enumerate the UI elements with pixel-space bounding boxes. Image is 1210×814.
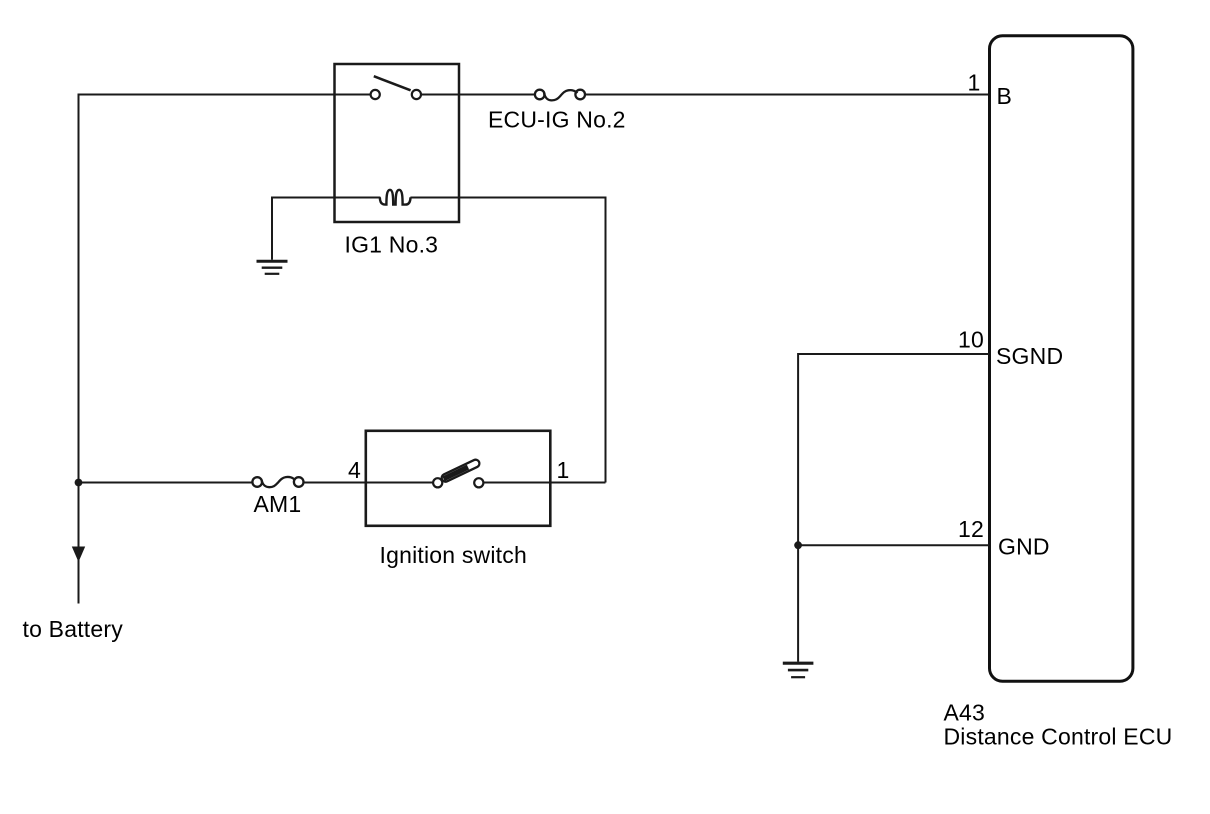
ignition switch box — [366, 431, 551, 526]
wire: fuse ECU-IG No.2 to ECU pin B — [585, 94, 990, 96]
wire: relay coil right lead down to ignition switch pin 1 — [410, 198, 605, 483]
svg-text:to Battery: to Battery — [23, 616, 124, 642]
svg-text:12: 12 — [958, 516, 984, 542]
svg-text:GND: GND — [998, 534, 1050, 560]
ground: ECU ground symbol — [783, 663, 814, 677]
wire: relay coil left lead — [272, 198, 380, 260]
ground: relay coil ground symbol — [257, 261, 288, 274]
wire: SGND from ground bus to ECU pin 10 — [798, 354, 989, 662]
svg-text:Distance Control ECU: Distance Control ECU — [944, 724, 1173, 750]
fuse ECU-IG No.2 — [535, 90, 585, 101]
relay coil — [380, 190, 411, 205]
svg-text:SGND: SGND — [996, 343, 1063, 369]
svg-text:AM1: AM1 — [254, 491, 302, 517]
svg-text:ECU-IG No.2: ECU-IG No.2 — [488, 107, 626, 133]
svg-text:B: B — [997, 83, 1013, 109]
wire: battery feed vertical (left bus) — [78, 94, 80, 604]
wire: fuse AM1 to ignition switch pin 4 — [304, 482, 434, 484]
svg-text:Ignition switch: Ignition switch — [380, 542, 527, 568]
junction: node at AM1 branch — [75, 479, 83, 487]
wire: top feed from left bus to relay contact — [79, 94, 371, 96]
junction: ground bus node — [794, 541, 802, 549]
fuse AM1 — [252, 477, 303, 487]
svg-text:1: 1 — [557, 457, 570, 483]
relay switch contact — [371, 76, 421, 99]
svg-text:IG1 No.3: IG1 No.3 — [345, 232, 439, 258]
svg-text:4: 4 — [348, 457, 361, 483]
arrow: to Battery direction arrowhead — [72, 547, 85, 563]
svg-text:1: 1 — [968, 70, 981, 96]
wire: GND from ground bus to ECU pin 12 — [798, 544, 989, 546]
wire: ignition switch pin 1 to right box edge — [484, 482, 606, 484]
svg-text:A43: A43 — [944, 700, 986, 726]
svg-text:10: 10 — [958, 327, 984, 353]
ignition switch contact — [433, 458, 483, 487]
wire: relay contact to fuse ECU-IG No.2 — [421, 94, 535, 96]
wire: left bus to fuse AM1 — [79, 482, 253, 484]
ECU A43 connector outline — [990, 36, 1133, 682]
relay IG1 No.3 box — [335, 64, 460, 222]
